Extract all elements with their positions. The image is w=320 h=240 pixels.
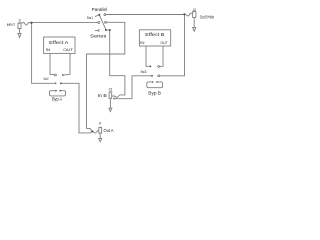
svg-text:Byp B: Byp B: [148, 90, 161, 95]
svg-text:J2: J2: [193, 8, 196, 12]
svg-text:OUT: OUT: [63, 48, 74, 52]
svg-text:Out A: Out A: [104, 128, 114, 133]
svg-text:IN: IN: [140, 41, 145, 45]
svg-text:Byp A: Byp A: [52, 97, 62, 102]
svg-text:IN: IN: [46, 48, 51, 52]
svg-text:INPUT: INPUT: [7, 23, 16, 27]
svg-text:Sw2: Sw2: [44, 77, 49, 81]
svg-text:J3: J3: [109, 87, 113, 91]
svg-text:In B: In B: [98, 93, 107, 98]
svg-text:Parallel: Parallel: [92, 7, 107, 12]
svg-text:J1: J1: [18, 19, 21, 23]
svg-text:Sw1: Sw1: [87, 16, 93, 20]
svg-text:J4: J4: [99, 121, 101, 125]
svg-text:Series: Series: [90, 33, 107, 38]
svg-text:Out B+Mix: Out B+Mix: [200, 15, 215, 20]
svg-text:Sw3: Sw3: [141, 70, 147, 74]
svg-text:Effect B: Effect B: [145, 32, 164, 37]
svg-text:OUT: OUT: [161, 41, 169, 45]
svg-text:Effect A: Effect A: [49, 40, 68, 45]
